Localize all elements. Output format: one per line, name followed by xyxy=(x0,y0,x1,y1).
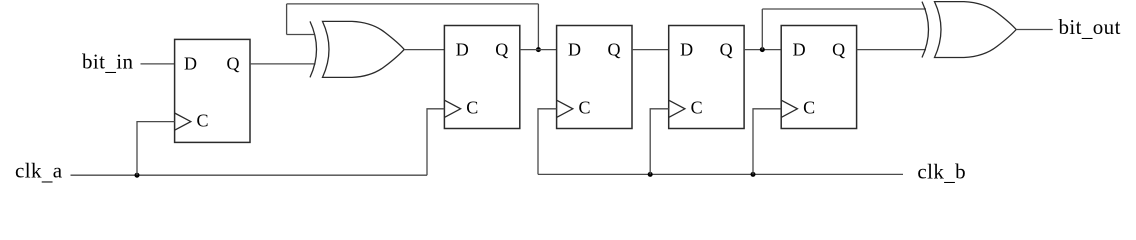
svg-text:C: C xyxy=(691,97,703,117)
svg-text:Q: Q xyxy=(720,40,733,60)
flip-flop U4 body xyxy=(669,26,744,129)
svg-text:C: C xyxy=(579,97,591,117)
U5 pin Q label xyxy=(832,40,845,60)
U3 clock triangle xyxy=(557,100,573,117)
U2 pin Q label xyxy=(495,40,508,60)
wire clk_a riser to U2.C xyxy=(427,109,444,175)
xor gate U7 xyxy=(922,2,1016,58)
wire clk_a rail xyxy=(71,174,428,176)
U1 clock triangle xyxy=(175,113,191,130)
wire clk_b riser to U4.C xyxy=(650,109,669,175)
wire clk_b riser to U5.C xyxy=(753,109,781,175)
U2 pin D label xyxy=(456,40,469,60)
svg-text:D: D xyxy=(680,40,693,60)
junction on U4.Q net xyxy=(760,47,765,52)
wire bit_in to U1.D xyxy=(141,63,175,65)
svg-text:clk_b: clk_b xyxy=(917,159,966,185)
wire U4.Q to U5.D xyxy=(744,49,781,51)
node bit_in label xyxy=(82,49,134,75)
U1 pin Q label xyxy=(227,54,240,74)
svg-text:C: C xyxy=(466,97,478,117)
svg-text:D: D xyxy=(456,40,469,60)
wire clk_a riser to U1.C xyxy=(137,122,175,176)
svg-text:D: D xyxy=(184,54,197,74)
junction on clk_b rail at U4 xyxy=(648,172,653,177)
xor gate U6 xyxy=(310,21,404,77)
U1 pin D label xyxy=(184,54,197,74)
U4 clock triangle xyxy=(669,100,685,117)
svg-text:C: C xyxy=(803,97,815,117)
flip-flop U1 body xyxy=(175,39,250,142)
U3 pin Q label xyxy=(608,40,621,60)
wire clk_b riser to U3.C xyxy=(538,109,557,175)
U3 pin C label xyxy=(579,97,591,117)
U5 pin C label xyxy=(803,97,815,117)
wire U3.Q to U4.D xyxy=(632,49,669,51)
node clk_b label xyxy=(917,159,966,185)
wire U2.Q to U3.D xyxy=(520,49,557,51)
wire U4.Q feed up to xor U7 rail xyxy=(761,9,763,50)
U3 pin D label xyxy=(568,40,581,60)
svg-text:Q: Q xyxy=(227,54,240,74)
flip-flop U2 body xyxy=(444,26,519,129)
junction on clk_a rail xyxy=(135,173,140,178)
U5 clock triangle xyxy=(781,100,797,117)
svg-text:bit_in: bit_in xyxy=(82,49,134,75)
node bit_out label xyxy=(1059,15,1121,41)
flip-flop U5 body xyxy=(781,26,856,129)
wire U7 output to bit_out xyxy=(1016,29,1052,31)
U4 pin Q label xyxy=(720,40,733,60)
wire U6 output to U2.D xyxy=(404,49,444,51)
svg-text:C: C xyxy=(197,110,209,130)
svg-text:D: D xyxy=(568,40,581,60)
U5 pin D label xyxy=(793,40,806,60)
wire U1.Q to xor U6 input B xyxy=(250,63,316,65)
svg-text:clk_a: clk_a xyxy=(15,158,63,184)
junction on clk_b rail at U5 xyxy=(751,172,756,177)
svg-text:Q: Q xyxy=(495,40,508,60)
U1 pin C label xyxy=(197,110,209,130)
svg-text:Q: Q xyxy=(832,40,845,60)
node clk_a label xyxy=(15,158,63,184)
U2 clock triangle xyxy=(444,100,460,117)
svg-text:Q: Q xyxy=(608,40,621,60)
U4 pin D label xyxy=(680,40,693,60)
wire feedback drop to U2.Q net xyxy=(537,4,539,50)
wire feedback top rail xyxy=(287,3,539,5)
wire xor U6 input A stub xyxy=(287,34,315,36)
wire feedback net from U2.Q: vertical at x=287 xyxy=(286,4,288,35)
wire U5.Q to xor U7 input B xyxy=(857,49,926,51)
U2 pin C label xyxy=(466,97,478,117)
wire clk_b rail xyxy=(538,173,903,175)
wire rail to xor U7 input A xyxy=(762,8,926,10)
svg-text:D: D xyxy=(793,40,806,60)
junction on U2.Q net xyxy=(536,47,541,52)
flip-flop U3 body xyxy=(557,26,632,129)
U4 pin C label xyxy=(691,97,703,117)
svg-text:bit_out: bit_out xyxy=(1059,15,1121,41)
